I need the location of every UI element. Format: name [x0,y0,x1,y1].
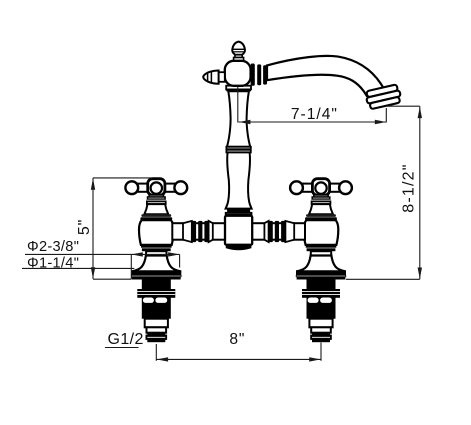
svg-text:7-1/4": 7-1/4" [291,106,338,123]
acorn finial [232,42,245,55]
dim phi1-1/4 [22,267,134,269]
spout tip reference line [386,105,420,107]
dim 5 inch: extension + line + arrows [93,177,152,179]
svg-text:Φ2-3/8": Φ2-3/8" [27,239,79,255]
svg-text:8-1/2": 8-1/2" [400,163,417,212]
column foot band [227,209,250,213]
right valve + cross handle [290,179,352,343]
left valve + cross handle [125,179,187,343]
spout body top ring [226,86,251,90]
left small acorn knob [219,72,225,82]
spout body [225,61,251,86]
column middle ring [226,147,250,153]
column lower section [226,152,252,208]
dim 8-1/2 inch [419,106,421,279]
spout coupling ribs [251,64,255,86]
left bridge pipe [172,223,225,240]
svg-text:Φ1-1/4": Φ1-1/4" [27,256,79,272]
finial base [235,55,242,58]
svg-text:G1/2: G1/2 [108,331,144,348]
right bridge pipe [252,223,305,240]
aerator tip (ribbed) [365,84,402,110]
column upper section [227,91,250,147]
dim phi2-3/8 [25,253,180,255]
svg-text:8": 8" [229,331,245,348]
dim 7-1/4 inch [237,87,239,123]
dim 8 inch [155,344,157,361]
svg-text:5": 5" [76,219,93,235]
spout tube [267,56,384,96]
bridge center hub [226,213,252,216]
